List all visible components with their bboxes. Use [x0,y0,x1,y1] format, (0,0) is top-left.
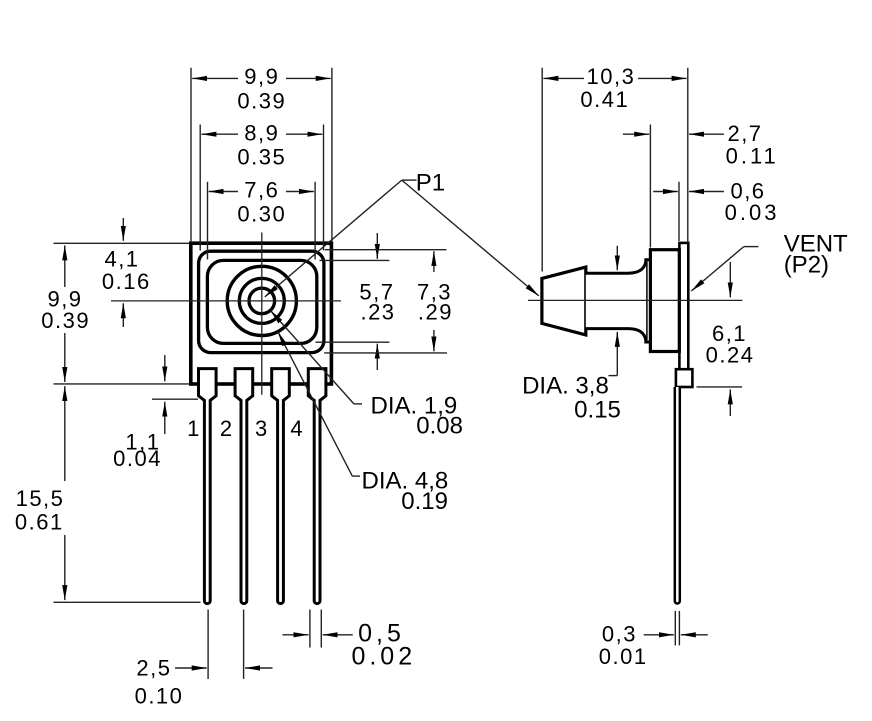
svg-text:0,3: 0,3 [602,622,637,647]
svg-text:0.39: 0.39 [237,89,286,114]
body inner rounded rect B [207,260,316,343]
dim 0,6 arrows [653,191,678,193]
pin 2 [235,369,253,604]
pin thickness ext lines [674,611,676,646]
body bottom extension line [54,383,190,385]
mounting plate (body edge-on) [679,243,688,369]
front view centerline horizontal [111,300,341,302]
DIA.3,8 upper arrow [616,246,618,270]
dim 6,1 top arrow [729,262,731,297]
dim 9,9/0.39 vertical line and arrows [64,245,66,287]
dim 9,9/0.39 line and arrows [192,77,238,79]
svg-text:7,6: 7,6 [244,177,279,202]
dim 2,7 arrows [623,133,649,135]
svg-text:0.30: 0.30 [237,202,286,227]
DIA.1,9 leader [270,310,354,404]
svg-text:2,7: 2,7 [727,121,762,146]
svg-text:0.02: 0.02 [351,643,416,671]
svg-text:1: 1 [187,416,201,441]
dim 4,1/0.16 arrows [122,218,124,241]
dim 5,7 ext lines [320,259,390,261]
dim 7,3 line and arrows [433,251,435,272]
P1 leader tick [402,179,417,181]
dim 2,7 ext line [649,125,651,248]
svg-text:9,9: 9,9 [244,64,279,89]
side view centerline [528,299,742,301]
svg-text:4: 4 [290,416,304,441]
P1 leader to side port [402,180,539,296]
sensor body outline [191,243,332,384]
svg-text:0.19: 0.19 [401,488,448,515]
pin4 leg extension lines below [309,610,311,648]
svg-text:P1: P1 [416,170,445,197]
pin2 extension line below [243,610,245,680]
body top extension line [54,242,190,244]
svg-text:0.39: 0.39 [41,308,90,333]
DIA.4,8 leader [278,332,352,476]
body inner rounded rect A [199,251,324,352]
port barrel top edge with fillet [585,260,651,273]
pin edge-on [675,387,680,604]
svg-text:0.24: 0.24 [706,343,755,368]
port outer circle DIA 4,8 [227,266,296,335]
svg-text:0.61: 0.61 [15,509,64,534]
svg-text:0.41: 0.41 [580,87,629,112]
pin 1 [199,369,217,604]
svg-text:4,1: 4,1 [104,246,139,271]
svg-text:2: 2 [220,416,234,441]
dim 0,6 ext line [678,182,680,241]
dim 10,3 ext lines [541,68,543,272]
P1 leader to front port [265,180,402,297]
pin 4 [308,369,326,604]
port barb cone [542,267,586,335]
svg-text:8,9: 8,9 [244,120,279,145]
svg-text:3: 3 [255,416,269,441]
svg-text:0.03: 0.03 [725,200,780,225]
svg-text:0.15: 0.15 [574,397,621,424]
port barrel fill [586,273,650,328]
dim 9,9/0.39 ext lines [190,68,192,243]
pin 3 [272,369,290,604]
svg-text:(P2): (P2) [784,252,829,279]
port barrel bottom edge with fillet [585,329,651,342]
svg-text:0.16: 0.16 [102,269,151,294]
port middle circle [239,278,284,323]
DIA.3,8 lower arrow and jog [616,332,618,376]
pin1 extension line below [207,610,209,680]
flange [650,250,679,352]
dim 7,6/0.30 line and arrows [209,191,238,193]
svg-text:0.01: 0.01 [599,644,648,669]
dim 6,1 bottom ext line [697,386,743,388]
svg-text:15,5: 15,5 [16,486,65,511]
svg-text:0.35: 0.35 [237,145,286,170]
svg-text:.29: .29 [418,300,453,325]
dim 8,9/0.35 line and arrows [201,133,238,135]
svg-text:0.08: 0.08 [416,413,463,440]
svg-text:0.10: 0.10 [135,684,184,709]
svg-text:.23: .23 [360,300,395,325]
fillet tangent line [646,262,648,341]
svg-text:0.04: 0.04 [113,446,162,471]
dim 0,5/0.02 arrows [283,634,309,636]
svg-text:0.11: 0.11 [726,144,779,169]
dim 0,3 arrows [644,634,674,636]
dim 15,5/0.61 line and arrows [64,386,66,481]
dim 8,9/0.35 ext lines [199,125,201,251]
dim 2,5/0.10 arrows [175,667,207,669]
dim 7,3 ext lines [325,249,447,251]
pins bottom extension line [54,601,201,603]
port inner circle DIA 1,9 [249,288,275,314]
dim 10,3 line and arrows [543,77,584,79]
dim 6,1 bottom arrow [729,389,731,416]
svg-text:2,5: 2,5 [136,656,171,681]
dim 7,6/0.30 ext lines [207,182,209,260]
svg-text:10,3: 10,3 [586,64,635,89]
svg-text:DIA. 3,8: DIA. 3,8 [522,373,609,400]
pin shoulder edge-on [676,369,693,387]
VENT leader [744,246,759,248]
pin shoulder bottom extension line [152,398,198,400]
dim 1,1/0.04 arrows [164,355,166,381]
dim 5,7 arrows [376,233,378,259]
front view centerline vertical [261,233,263,395]
